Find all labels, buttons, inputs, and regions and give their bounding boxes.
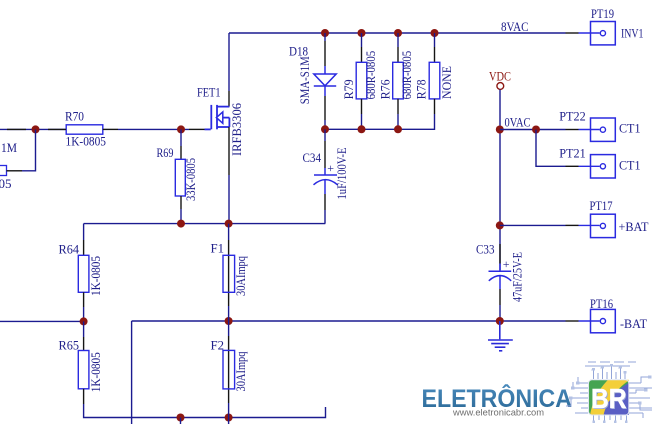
svg-text:PT19: PT19	[591, 7, 614, 21]
svg-text:www.eletronicabr.com: www.eletronicabr.com	[452, 407, 544, 417]
wire R76 bottom lead	[397, 114, 399, 129]
node junction gate/R69	[177, 125, 185, 133]
resistor R65	[78, 351, 89, 389]
svg-text:47uF/25V-E: 47uF/25V-E	[511, 252, 525, 302]
wire stub below junction 1	[180, 418, 182, 424]
node junction 0VAC	[496, 126, 504, 134]
wire R78 top lead	[434, 33, 436, 47]
node junction R78 top	[431, 29, 439, 37]
connector PT19	[579, 7, 644, 45]
svg-text:F1: F1	[211, 242, 225, 256]
pin R78 bottom	[434, 99, 436, 114]
svg-text:1K-0805: 1K-0805	[66, 135, 107, 149]
node junction R76 top	[394, 29, 402, 37]
pin R76 top	[397, 47, 399, 62]
node junction R69 / mid rail	[177, 220, 185, 228]
svg-text:+BAT: +BAT	[619, 220, 649, 234]
wire C34 bottom to mid rail	[324, 210, 326, 224]
node junction R76 bottom	[394, 125, 402, 133]
node junction R64/R65	[80, 317, 88, 325]
node junction CT branch	[532, 126, 540, 134]
pin R64 bottom	[83, 292, 85, 307]
svg-text:R65: R65	[59, 338, 80, 352]
svg-text:1M: 1M	[1, 141, 17, 155]
wire R69 top	[180, 129, 182, 146]
pin C34 top	[324, 141, 326, 168]
svg-text:PT22: PT22	[559, 109, 586, 123]
svg-text:CT1: CT1	[619, 122, 641, 136]
resistor R79	[356, 62, 367, 99]
connector PT21	[559, 147, 640, 178]
pin C34 bottom	[324, 194, 326, 210]
svg-text:F2: F2	[211, 338, 225, 352]
wire F1 top lead	[228, 224, 230, 240]
wire R64 bottom	[83, 307, 85, 321]
resistor R69	[175, 159, 185, 196]
wire R78 bottom lead to rail	[325, 114, 435, 129]
wire 0VAC to PT22	[500, 129, 566, 131]
capacitor C34	[314, 168, 338, 194]
wire C33 bottom	[499, 305, 501, 321]
svg-text:-BAT: -BAT	[620, 317, 647, 331]
pin R79 top	[361, 47, 363, 62]
svg-text:VDC: VDC	[489, 69, 511, 83]
node junction F1/F2	[225, 317, 233, 325]
svg-text:R79: R79	[342, 79, 356, 99]
svg-text:NONE: NONE	[440, 66, 454, 99]
svg-text:PT16: PT16	[590, 297, 613, 311]
pin FET gate	[189, 128, 205, 130]
wire gate net left	[0, 128, 66, 130]
logo eletronicabr	[422, 362, 652, 423]
fuse F2	[223, 350, 235, 389]
ground	[488, 321, 513, 351]
svg-text:1uF/100V-E: 1uF/100V-E	[335, 147, 349, 199]
svg-text:R70: R70	[65, 109, 84, 123]
wire R65 top lead	[83, 321, 85, 337]
resistor 1M cropped	[0, 166, 7, 176]
wire bat minus rail	[132, 320, 566, 322]
pin R79 bottom	[361, 99, 363, 114]
svg-text:680R-0805: 680R-0805	[364, 51, 378, 100]
svg-text:PT17: PT17	[590, 199, 613, 213]
svg-text:1K-0805: 1K-0805	[89, 352, 103, 392]
wire R65 bottom to bottom rail	[84, 404, 326, 418]
diode D18	[314, 66, 336, 96]
wire FET source to rail	[228, 175, 230, 224]
connector PT22	[559, 109, 640, 141]
svg-text:C34: C34	[303, 151, 322, 165]
wire F1 bottom lead	[228, 306, 230, 321]
wire CT branch down to PT21	[536, 130, 566, 167]
wire mid rail	[84, 223, 326, 225]
wire vertical crossing	[131, 321, 133, 424]
wire R76 top lead	[397, 33, 399, 47]
wire R79 bottom lead	[361, 114, 363, 129]
svg-text:CT1: CT1	[619, 159, 641, 173]
svg-text:PT21: PT21	[559, 147, 586, 161]
svg-text:33K-0805: 33K-0805	[184, 158, 198, 201]
pin R65 bottom	[83, 389, 85, 404]
pin F1 through	[228, 240, 230, 306]
wire left net at 321	[0, 320, 84, 322]
wire R64 top lead	[83, 224, 85, 240]
resistor R70	[66, 125, 103, 134]
wire stub below junction 2	[228, 418, 230, 424]
node junction R79 top	[358, 29, 366, 37]
node junction bottom rail 1	[177, 414, 185, 422]
connector PT17	[579, 199, 649, 238]
resistor R76	[393, 62, 404, 99]
pin FET source	[228, 127, 230, 175]
svg-text:0VAC: 0VAC	[505, 115, 531, 129]
pin C33 top	[499, 244, 501, 264]
pin R70 left	[48, 128, 66, 130]
pin segment left cropped part	[7, 128, 26, 130]
transistor Q FET1	[205, 105, 230, 129]
svg-text:INV1: INV1	[621, 26, 644, 40]
svg-text:680R-0805: 680R-0805	[400, 51, 414, 100]
node junction D18 bottom	[321, 125, 329, 133]
capacitor C33	[489, 264, 512, 290]
node junction PT17 tap	[496, 221, 504, 229]
wire F2 bottom lead	[228, 403, 230, 418]
svg-text:05: 05	[0, 177, 12, 191]
svg-text:R76: R76	[379, 79, 393, 99]
svg-text:FET1: FET1	[197, 85, 221, 99]
pin R70 right	[103, 128, 118, 130]
svg-text:R64: R64	[59, 243, 80, 257]
node junction left	[32, 125, 40, 133]
node junction FET source / mid rail	[225, 220, 233, 228]
pin D18 anode	[324, 41, 326, 66]
svg-text:30AImpq: 30AImpq	[234, 351, 248, 392]
pin R69 bottom	[180, 196, 182, 209]
svg-text:+: +	[327, 161, 334, 175]
node junction R79 bottom	[358, 125, 366, 133]
wire D18 top	[324, 33, 326, 41]
node junction bottom rail 2	[225, 414, 233, 422]
svg-text:C33: C33	[476, 242, 495, 256]
pin R65 top	[83, 337, 85, 351]
svg-text:IRFB3306: IRFB3306	[230, 103, 244, 156]
svg-text:+: +	[503, 257, 510, 271]
svg-text:1K-0805: 1K-0805	[89, 256, 103, 296]
node junction D18 top	[321, 29, 329, 37]
wire to PT17	[500, 224, 566, 226]
wire R70 to gate	[118, 128, 189, 130]
svg-text:30AImpq: 30AImpq	[234, 255, 248, 296]
svg-text:R69: R69	[157, 146, 174, 160]
wire FET drain vertical	[228, 33, 230, 91]
pin R64 top	[83, 240, 85, 255]
wire F2 top lead	[228, 321, 230, 336]
svg-text:8VAC: 8VAC	[501, 20, 529, 34]
fuse F1	[223, 255, 235, 292]
pin C33 bottom	[499, 289, 501, 305]
svg-text:BR: BR	[591, 383, 627, 414]
wire R79 top lead	[361, 33, 363, 47]
resistor R78	[429, 62, 440, 99]
pin R78 top	[434, 47, 436, 62]
wire R69 bottom	[180, 209, 182, 224]
pin 1M resistor	[7, 170, 23, 172]
svg-text:SMA-S1M: SMA-S1M	[298, 56, 312, 104]
svg-text:R78: R78	[415, 79, 429, 99]
wire C34 top lead	[324, 129, 326, 141]
wire D18 bottom	[324, 120, 326, 129]
resistor R64	[78, 255, 89, 292]
pin R76 bottom	[397, 99, 399, 114]
connector PT16	[579, 297, 648, 333]
pin D18 cathode	[324, 96, 326, 120]
node junction ground	[496, 317, 504, 325]
pin FET drain	[228, 91, 230, 107]
pin F2 through	[228, 336, 230, 403]
wire 8VAC top rail	[229, 32, 566, 34]
wire VDC down	[499, 90, 501, 271]
wire 1M to junction	[22, 129, 36, 170]
pin R69 top	[180, 146, 182, 159]
